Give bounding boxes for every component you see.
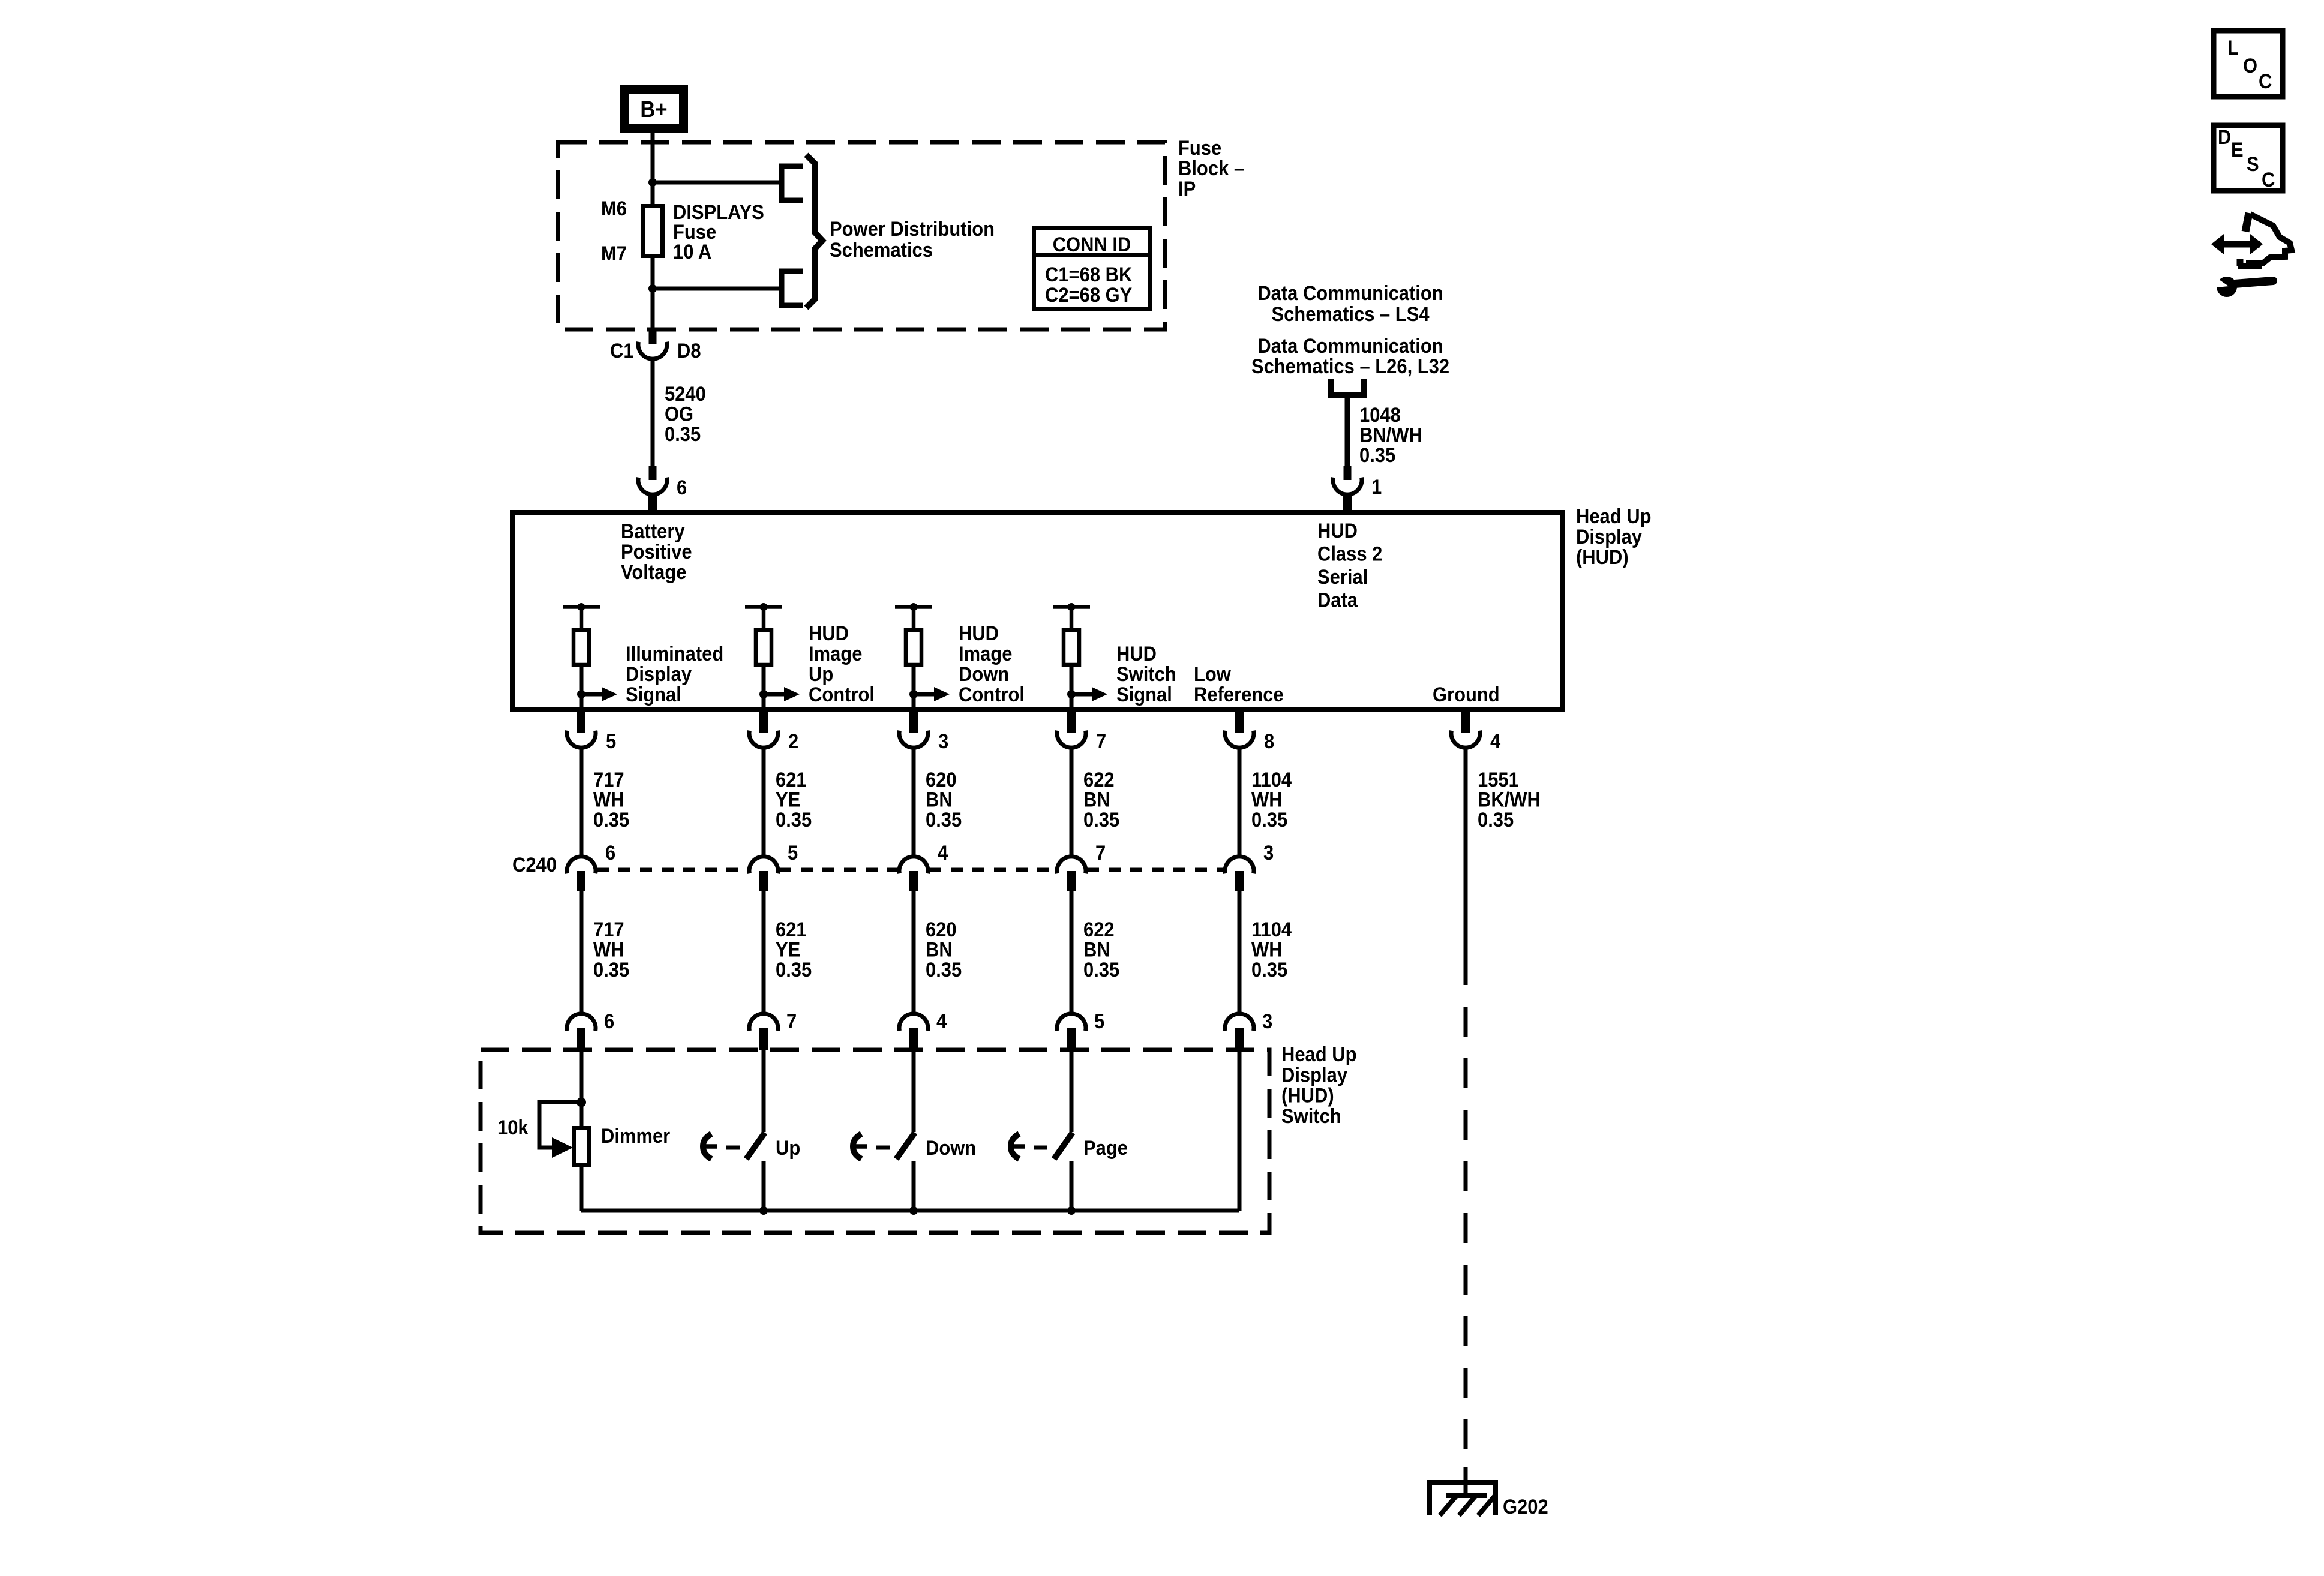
svg-text:M6: M6 — [601, 197, 627, 220]
wire HUD pin 3 to C240 (col 3) — [912, 748, 916, 857]
svg-text:Display: Display — [626, 663, 692, 686]
svg-text:1551: 1551 — [1478, 769, 1519, 791]
svg-text:Switch: Switch — [1281, 1105, 1341, 1128]
svg-text:Voltage: Voltage — [621, 561, 686, 584]
svg-text:1104: 1104 — [1251, 769, 1292, 791]
vehicle service icon (arrow, car outline, wrench) — [2211, 213, 2292, 297]
svg-text:Low: Low — [1194, 663, 1232, 686]
svg-text:5240: 5240 — [665, 383, 706, 406]
svg-text:0.35: 0.35 — [1251, 958, 1287, 981]
svg-text:IP: IP — [1178, 178, 1196, 200]
legend box DESC — [2214, 125, 2283, 191]
junction node dimmer wiper — [577, 1098, 586, 1107]
battery positive voltage terminal B+ — [620, 85, 688, 133]
svg-text:(HUD): (HUD) — [1281, 1084, 1334, 1107]
svg-text:B+: B+ — [640, 96, 667, 122]
svg-text:0.35: 0.35 — [1083, 808, 1119, 831]
connector C240 pin 3 (col 5) — [1225, 842, 1274, 891]
svg-text:Data Communication: Data Communication — [1257, 335, 1443, 358]
momentary contact symbol Up — [703, 1134, 711, 1159]
svg-text:Positive: Positive — [621, 541, 692, 563]
svg-text:0.35: 0.35 — [1251, 808, 1287, 831]
svg-text:621: 621 — [776, 918, 807, 941]
svg-text:1: 1 — [1371, 476, 1382, 499]
svg-text:Up: Up — [809, 663, 833, 686]
svg-text:5: 5 — [788, 842, 798, 864]
svg-text:4: 4 — [1490, 730, 1500, 753]
svg-text:Head Up: Head Up — [1576, 505, 1651, 528]
wire C240 to HUD switch (col 5) — [1238, 891, 1242, 1014]
connector C240 pin 5 (col 2) — [749, 842, 798, 891]
svg-text:4: 4 — [936, 1010, 947, 1033]
potentiometer Dimmer 10k — [574, 1128, 590, 1165]
svg-text:717: 717 — [593, 769, 624, 791]
wire HUD pin 7 to C240 (col 4) — [1070, 748, 1074, 857]
svg-text:0.35: 0.35 — [926, 808, 962, 831]
svg-text:Serial: Serial — [1317, 566, 1368, 589]
svg-text:3: 3 — [938, 730, 948, 753]
wire HUD pin 2 to C240 (col 2) — [762, 748, 766, 857]
svg-text:Down: Down — [926, 1137, 976, 1160]
svg-text:BN: BN — [926, 938, 953, 961]
wire pin 6 to dimmer — [580, 1050, 584, 1127]
svg-text:7: 7 — [786, 1010, 797, 1033]
wire HUD pin 4 to ground splice — [1464, 748, 1468, 955]
svg-text:Signal: Signal — [1116, 683, 1172, 706]
svg-text:10 A: 10 A — [673, 241, 711, 263]
svg-text:Switch: Switch — [1116, 663, 1176, 686]
svg-text:0.35: 0.35 — [1478, 808, 1514, 831]
svg-text:Class 2: Class 2 — [1317, 542, 1382, 565]
switch blade Down — [896, 1133, 915, 1159]
connector HUD pin 4 (ground) — [1451, 712, 1500, 752]
svg-text:2: 2 — [788, 730, 798, 753]
connector HUD pin 6 — [638, 466, 687, 511]
svg-text:Dimmer: Dimmer — [601, 1125, 671, 1148]
svg-text:3: 3 — [1263, 842, 1274, 864]
connector C240 pin 6 (col 1) — [567, 842, 615, 891]
svg-text:D: D — [2218, 126, 2231, 149]
svg-text:Up: Up — [776, 1137, 800, 1160]
ground G202 symbol — [1430, 1482, 1496, 1515]
connector HUD switch pin 3 (col 5) — [1225, 1010, 1272, 1050]
svg-text:6: 6 — [605, 842, 615, 864]
connector HUD pin 5 (col 1) — [567, 712, 616, 752]
svg-text:4: 4 — [938, 842, 948, 864]
CONN ID table — [1032, 228, 1152, 309]
wire Page switch to bus — [1070, 1161, 1074, 1211]
wire C240 to HUD switch (col 4) — [1070, 891, 1074, 1014]
svg-text:S: S — [2247, 153, 2259, 176]
svg-text:6: 6 — [604, 1010, 614, 1033]
fuse DISPLAYS 10A — [643, 206, 663, 256]
dimmer wiper arrow — [552, 1137, 573, 1158]
connector C1 pin D8 — [610, 329, 701, 362]
svg-text:8: 8 — [1264, 730, 1274, 753]
connector HUD pin 3 (col 3) — [899, 712, 948, 752]
wire Down switch to bus — [912, 1161, 916, 1211]
connector HUD switch pin 5 (col 4) — [1057, 1010, 1104, 1050]
connector C240 pin 7 (col 4) — [1057, 842, 1106, 891]
svg-text:M7: M7 — [601, 242, 627, 265]
svg-text:Signal: Signal — [626, 683, 681, 706]
switch blade Page — [1054, 1133, 1073, 1159]
junction node bus col3 — [909, 1206, 918, 1215]
svg-text:622: 622 — [1083, 769, 1115, 791]
svg-text:BK/WH: BK/WH — [1478, 788, 1541, 811]
svg-text:WH: WH — [1251, 938, 1283, 961]
wire B+ to fuse M6 — [651, 133, 655, 205]
wire switch pin to Down switch — [912, 1050, 916, 1132]
svg-text:620: 620 — [926, 918, 957, 941]
momentary contact symbol Down — [853, 1134, 861, 1159]
connector bracket power distribution feed 2 — [782, 271, 803, 305]
svg-text:Illuminated: Illuminated — [626, 643, 723, 665]
wire HUD pin 8 to C240 (col 5) — [1238, 748, 1242, 857]
HUD module box — [513, 513, 1563, 710]
svg-text:1048: 1048 — [1359, 404, 1401, 427]
svg-text:6: 6 — [677, 476, 687, 499]
ground wire dashed segment — [1464, 955, 1468, 1467]
svg-text:C240: C240 — [512, 854, 557, 876]
svg-text:7: 7 — [1095, 842, 1106, 864]
wire bus to pin 3 — [1238, 1050, 1242, 1211]
contact dash Down — [876, 1146, 890, 1150]
svg-text:0.35: 0.35 — [926, 958, 962, 981]
pull-up resistor R1 (col 1) — [563, 603, 600, 712]
svg-text:WH: WH — [1251, 788, 1283, 811]
svg-text:Data: Data — [1317, 589, 1358, 611]
wire junction to power distribution feed 2 — [653, 287, 782, 291]
svg-text:622: 622 — [1083, 918, 1115, 941]
connector HUD pin 1 — [1333, 466, 1382, 511]
svg-text:E: E — [2231, 139, 2244, 161]
svg-text:HUD: HUD — [809, 622, 849, 645]
contact dash Up — [726, 1146, 740, 1150]
contact dash Page — [1034, 1146, 1047, 1150]
signal arrow col 1 — [577, 687, 617, 701]
wire switch pin to Page switch — [1070, 1050, 1074, 1132]
connector HUD switch pin 7 (col 2) — [749, 1010, 797, 1050]
svg-text:Display: Display — [1281, 1064, 1347, 1086]
svg-text:3: 3 — [1262, 1010, 1272, 1033]
fuse block - IP dashed box — [558, 142, 1165, 329]
svg-text:OG: OG — [665, 403, 693, 425]
wire C240 to HUD switch (col 2) — [762, 891, 766, 1014]
connector bracket power distribution feed 1 — [782, 166, 803, 200]
junction node bus col4 — [1067, 1206, 1076, 1215]
svg-text:0.35: 0.35 — [593, 958, 629, 981]
svg-text:Schematics – L26, L32: Schematics – L26, L32 — [1251, 355, 1449, 378]
svg-text:BN/WH: BN/WH — [1359, 424, 1422, 446]
svg-text:Control: Control — [959, 683, 1025, 706]
C240 inline connector dashed line — [597, 868, 1224, 872]
junction node below fuse — [648, 284, 657, 293]
wire bracket to HUD pin 1 — [1345, 395, 1350, 475]
signal arrow col 3 — [909, 687, 950, 701]
svg-text:5: 5 — [1094, 1010, 1104, 1033]
svg-text:WH: WH — [593, 788, 624, 811]
svg-text:Head Up: Head Up — [1281, 1043, 1356, 1066]
svg-text:7: 7 — [1096, 730, 1106, 753]
svg-text:0.35: 0.35 — [776, 808, 812, 831]
svg-text:C: C — [2262, 169, 2275, 191]
svg-text:HUD: HUD — [1116, 643, 1157, 665]
svg-text:Image: Image — [959, 643, 1012, 665]
svg-text:WH: WH — [593, 938, 624, 961]
svg-text:Data Communication: Data Communication — [1257, 282, 1443, 305]
wire fuse M7 to connector C1 — [651, 256, 655, 331]
svg-text:10k: 10k — [497, 1116, 529, 1139]
svg-text:0.35: 0.35 — [1083, 958, 1119, 981]
svg-text:Schematics: Schematics — [830, 239, 933, 262]
svg-text:Page: Page — [1083, 1137, 1128, 1160]
wire HUD pin 5 to C240 (col 1) — [580, 748, 584, 857]
wire C240 to HUD switch (col 1) — [580, 891, 584, 1014]
signal arrow col 2 — [759, 687, 800, 701]
brace to power distribution schematics — [806, 155, 822, 308]
svg-text:HUD: HUD — [959, 622, 999, 645]
junction node above fuse — [648, 178, 657, 187]
connector HUD pin 7 (col 4) — [1057, 712, 1106, 752]
wire C1 to HUD pin 6 — [651, 359, 655, 475]
connector HUD switch pin 6 (col 1) — [567, 1010, 614, 1050]
svg-text:0.35: 0.35 — [1359, 444, 1395, 467]
svg-text:Power Distribution: Power Distribution — [830, 218, 995, 241]
svg-text:1104: 1104 — [1251, 918, 1292, 941]
svg-text:L: L — [2227, 37, 2239, 59]
signal arrow col 4 — [1067, 687, 1107, 701]
dimmer wiper loop — [539, 1103, 581, 1148]
svg-text:C1=68 BK: C1=68 BK — [1045, 263, 1133, 286]
svg-text:Block –: Block – — [1178, 157, 1244, 180]
off-page connector bracket — [1331, 379, 1364, 395]
svg-text:BN: BN — [1083, 788, 1110, 811]
svg-text:BN: BN — [1083, 938, 1110, 961]
connector HUD pin 2 (col 2) — [749, 712, 798, 752]
svg-text:D8: D8 — [677, 340, 701, 362]
pull-up resistor R3 (col 3) — [895, 603, 932, 712]
wire C240 to HUD switch (col 3) — [912, 891, 916, 1014]
svg-text:0.35: 0.35 — [776, 958, 812, 981]
svg-text:0.35: 0.35 — [593, 808, 629, 831]
pull-up resistor R2 (col 2) — [745, 603, 782, 712]
switch blade Up — [746, 1133, 765, 1159]
svg-text:C: C — [2259, 70, 2272, 93]
svg-text:O: O — [2243, 55, 2257, 77]
svg-text:Image: Image — [809, 643, 862, 665]
connector HUD switch pin 4 (col 3) — [899, 1010, 947, 1050]
svg-text:5: 5 — [606, 730, 616, 753]
wire Up switch to bus — [762, 1161, 766, 1211]
pull-up resistor R4 (col 4) — [1053, 603, 1090, 712]
svg-text:Fuse: Fuse — [1178, 137, 1221, 160]
svg-text:Schematics – LS4: Schematics – LS4 — [1271, 303, 1429, 326]
connector HUD pin 8 (col 5) — [1225, 712, 1274, 752]
momentary contact symbol Page — [1011, 1134, 1019, 1159]
svg-text:Control: Control — [809, 683, 875, 706]
svg-text:BN: BN — [926, 788, 953, 811]
svg-text:717: 717 — [593, 918, 624, 941]
svg-text:YE: YE — [776, 938, 800, 961]
switch common bus — [581, 1209, 1239, 1213]
connector C240 pin 4 (col 3) — [899, 842, 948, 891]
svg-text:YE: YE — [776, 788, 800, 811]
wire junction to power distribution feed 1 — [653, 181, 782, 185]
svg-text:620: 620 — [926, 769, 957, 791]
svg-text:HUD: HUD — [1317, 520, 1358, 542]
svg-text:Battery: Battery — [621, 520, 685, 543]
svg-text:(HUD): (HUD) — [1576, 546, 1629, 569]
wire switch pin to Up switch — [762, 1050, 766, 1132]
svg-text:CONN ID: CONN ID — [1053, 233, 1131, 256]
head up display switch dashed box — [481, 1050, 1269, 1233]
svg-text:G202: G202 — [1503, 1496, 1548, 1518]
svg-text:Display: Display — [1576, 526, 1642, 548]
legend box LOC — [2214, 31, 2283, 97]
svg-text:Ground: Ground — [1433, 683, 1500, 706]
junction node bus col2 — [759, 1206, 768, 1215]
svg-text:621: 621 — [776, 769, 807, 791]
svg-text:C1: C1 — [610, 340, 634, 362]
ground wire to G202 — [1464, 1467, 1468, 1496]
svg-text:Down: Down — [959, 663, 1009, 686]
wire dimmer to bus — [580, 1165, 584, 1211]
svg-text:C2=68 GY: C2=68 GY — [1045, 284, 1133, 307]
svg-text:Reference: Reference — [1194, 683, 1284, 706]
svg-text:0.35: 0.35 — [665, 423, 701, 446]
